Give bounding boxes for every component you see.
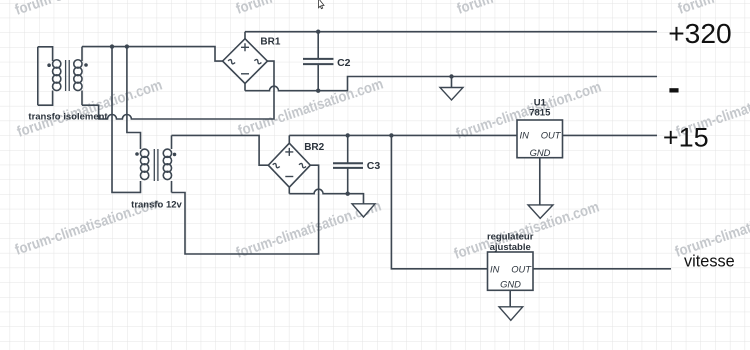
svg-text:OUT: OUT <box>511 264 532 275</box>
svg-text:+320: +320 <box>668 17 732 49</box>
svg-text:vitesse: vitesse <box>684 253 735 271</box>
svg-text:C2: C2 <box>337 57 351 69</box>
svg-text:regulateur: regulateur <box>487 232 534 243</box>
svg-text:transfo isolement: transfo isolement <box>28 112 108 123</box>
svg-text:transfo 12v: transfo 12v <box>131 200 182 211</box>
svg-text:IN: IN <box>490 264 500 275</box>
svg-text:ajustable: ajustable <box>490 242 531 253</box>
svg-text:-: - <box>668 67 680 108</box>
svg-text:7815: 7815 <box>529 108 551 119</box>
svg-text:GND: GND <box>500 279 521 290</box>
svg-text:BR2: BR2 <box>304 142 324 153</box>
svg-text:BR1: BR1 <box>260 36 280 47</box>
svg-text:IN: IN <box>520 130 530 141</box>
svg-text:C3: C3 <box>367 160 381 172</box>
svg-text:OUT: OUT <box>541 130 562 141</box>
svg-text:GND: GND <box>530 147 551 158</box>
svg-text:+15: +15 <box>663 123 709 153</box>
